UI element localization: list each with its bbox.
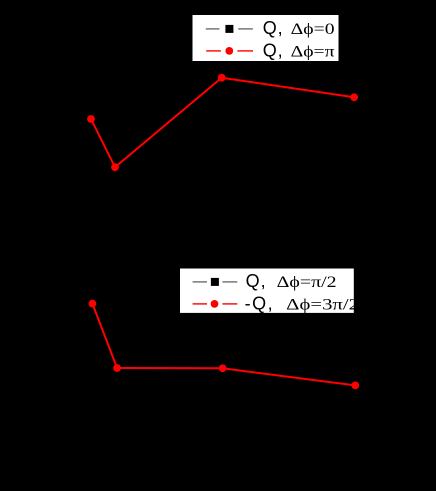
svg-text:Q,: Q, bbox=[263, 41, 283, 61]
svg-text:Δϕ=0: Δϕ=0 bbox=[291, 21, 335, 38]
legend 1 row 2 line sample (red dashed) bbox=[206, 50, 221, 52]
legend 2 row 2 circle marker bbox=[211, 300, 219, 308]
svg-text:Q,: Q, bbox=[246, 271, 266, 291]
svg-text:Δϕ=3π/2: Δϕ=3π/2 bbox=[286, 296, 359, 313]
legend 2 row 2 line sample (red dashed) bbox=[193, 303, 207, 305]
node P1 top bbox=[87, 115, 95, 123]
node P4 bottom bbox=[351, 382, 359, 390]
legend 1 row 1 square marker bbox=[225, 25, 233, 33]
node P4 top bbox=[350, 93, 358, 101]
node P3 bottom bbox=[219, 364, 227, 372]
legend 1 box bbox=[193, 15, 339, 61]
node P1 bottom bbox=[89, 300, 97, 308]
svg-text:-Q,: -Q, bbox=[245, 293, 273, 313]
node P2 bottom bbox=[113, 364, 121, 372]
wire: bottom graph red curve (-Q, dphi=3pi/2) bbox=[92, 304, 355, 386]
svg-text:Δϕ=π/2: Δϕ=π/2 bbox=[277, 274, 337, 291]
legend 1 row 2 circle marker bbox=[225, 47, 233, 55]
legend 2 box bbox=[180, 269, 354, 313]
legend 2 row 1 line sample (black dashed) bbox=[193, 281, 207, 283]
svg-text:Q,: Q, bbox=[263, 18, 283, 38]
legend 2 row 1 square marker bbox=[211, 278, 219, 286]
node P3 top bbox=[218, 74, 226, 82]
node P2 top bbox=[111, 163, 119, 171]
wire: top graph red curve (Q, dphi=pi) bbox=[91, 78, 354, 168]
svg-text:Δϕ=π: Δϕ=π bbox=[291, 44, 335, 61]
legend 1 row 1 line sample (black dashed) bbox=[206, 28, 220, 30]
